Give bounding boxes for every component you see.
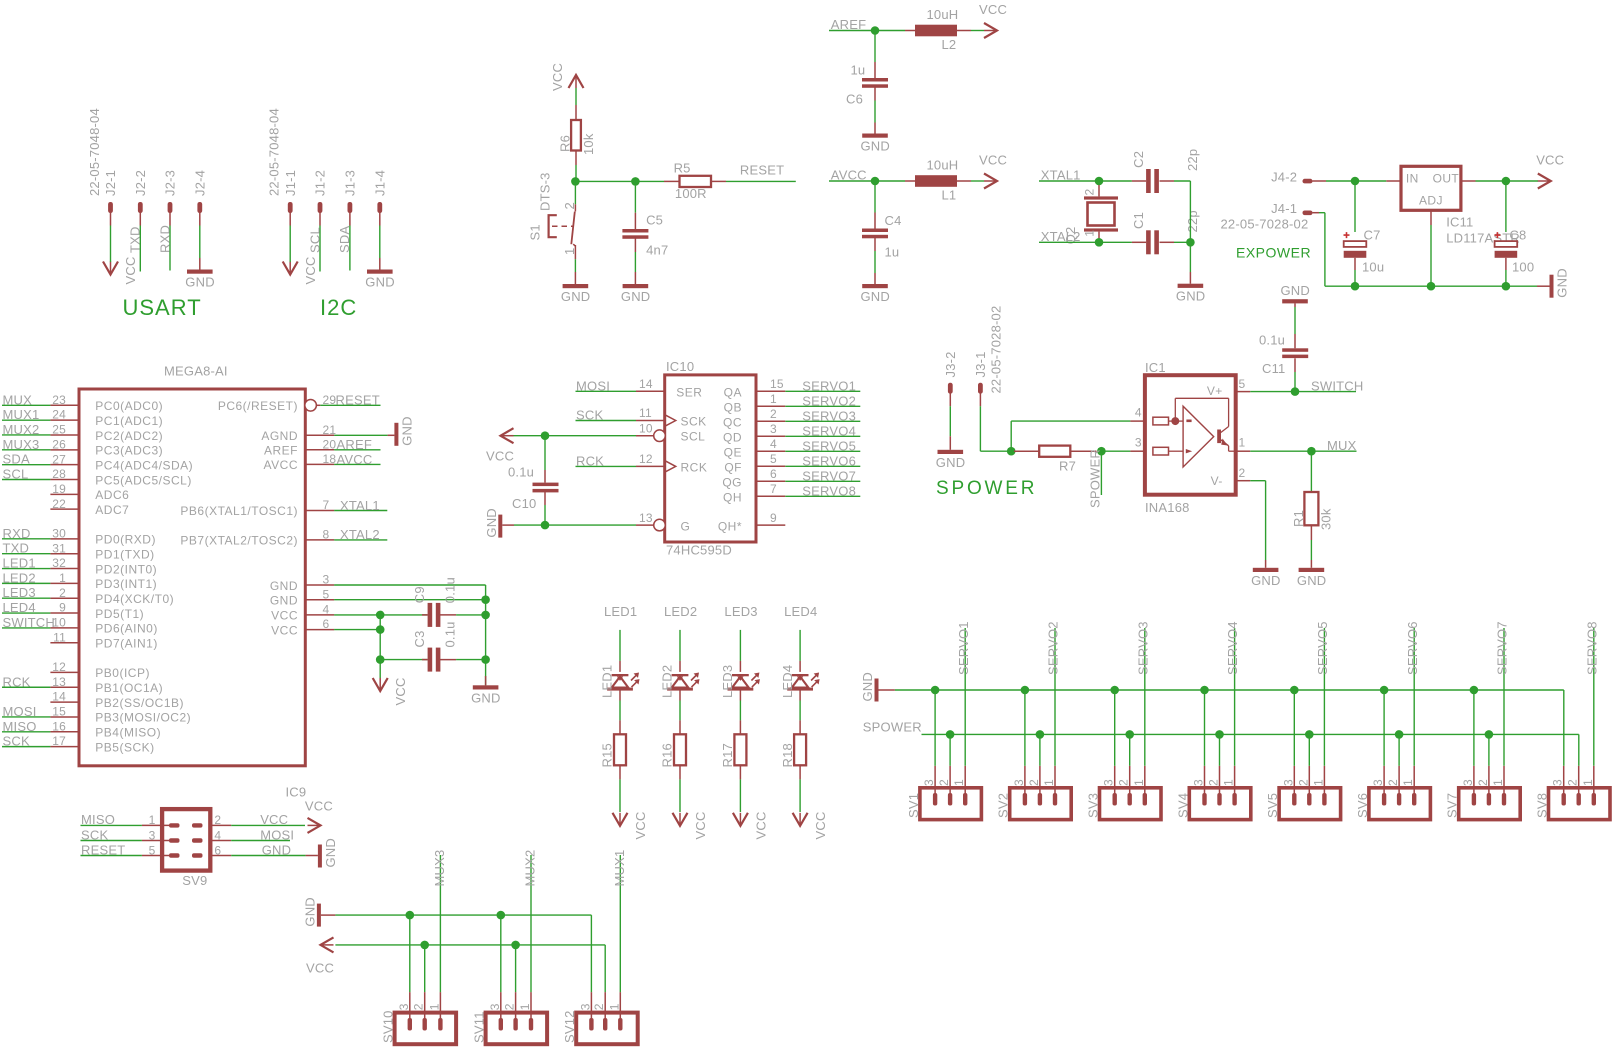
svg-text:GND: GND bbox=[561, 289, 591, 304]
svg-text:1: 1 bbox=[149, 813, 156, 827]
svg-text:MISO: MISO bbox=[3, 719, 37, 734]
svg-text:SERVO1: SERVO1 bbox=[956, 621, 971, 675]
svg-text:PB2(SS/OC1B): PB2(SS/OC1B) bbox=[95, 696, 184, 710]
svg-text:G: G bbox=[681, 520, 691, 534]
svg-text:GND: GND bbox=[1176, 289, 1206, 304]
svg-text:30k: 30k bbox=[1319, 508, 1334, 530]
svg-text:PC1(ADC1): PC1(ADC1) bbox=[95, 414, 163, 428]
svg-text:GND: GND bbox=[936, 455, 966, 470]
svg-text:GND: GND bbox=[621, 289, 651, 304]
svg-text:LED1: LED1 bbox=[604, 604, 637, 619]
svg-text:OUT: OUT bbox=[1433, 171, 1460, 185]
svg-text:GND: GND bbox=[302, 897, 317, 927]
svg-text:3: 3 bbox=[488, 1003, 502, 1010]
svg-text:2: 2 bbox=[1476, 779, 1490, 786]
svg-text:3: 3 bbox=[1192, 779, 1206, 786]
svg-text:LED2: LED2 bbox=[3, 570, 36, 585]
svg-text:V-: V- bbox=[1211, 474, 1223, 488]
svg-text:23: 23 bbox=[52, 393, 66, 407]
svg-text:VCC: VCC bbox=[486, 449, 514, 464]
svg-text:IC9: IC9 bbox=[286, 785, 307, 800]
svg-text:GND: GND bbox=[860, 672, 875, 702]
svg-text:R18: R18 bbox=[780, 743, 795, 767]
svg-text:L2: L2 bbox=[942, 37, 957, 52]
svg-text:1: 1 bbox=[427, 1003, 441, 1010]
svg-text:XTAL1: XTAL1 bbox=[340, 498, 380, 513]
svg-text:SERVO2: SERVO2 bbox=[1046, 621, 1061, 675]
svg-text:1: 1 bbox=[1311, 779, 1325, 786]
svg-text:25: 25 bbox=[52, 423, 66, 437]
svg-text:J1-4: J1-4 bbox=[373, 170, 388, 196]
svg-text:VCC: VCC bbox=[550, 63, 565, 91]
svg-text:MUX3: MUX3 bbox=[432, 850, 447, 887]
svg-text:15: 15 bbox=[52, 705, 66, 719]
svg-text:SCK: SCK bbox=[3, 734, 30, 749]
svg-text:1: 1 bbox=[59, 571, 66, 585]
svg-text:C3: C3 bbox=[412, 630, 427, 647]
svg-text:C10: C10 bbox=[512, 496, 536, 511]
svg-text:AREF: AREF bbox=[337, 437, 372, 452]
svg-text:R7: R7 bbox=[1059, 459, 1076, 474]
svg-text:SWITCH: SWITCH bbox=[3, 615, 55, 630]
svg-text:GND: GND bbox=[365, 275, 395, 290]
svg-text:2: 2 bbox=[1083, 189, 1097, 196]
svg-text:C5: C5 bbox=[646, 213, 663, 228]
svg-text:J1-2: J1-2 bbox=[313, 170, 328, 196]
svg-text:J1-3: J1-3 bbox=[343, 170, 358, 196]
svg-text:10uH: 10uH bbox=[927, 158, 959, 173]
svg-text:VCC: VCC bbox=[271, 609, 298, 623]
svg-text:SV12: SV12 bbox=[562, 1010, 577, 1043]
svg-text:4: 4 bbox=[770, 437, 777, 451]
svg-text:LED2: LED2 bbox=[660, 665, 675, 698]
svg-text:0.1u: 0.1u bbox=[443, 577, 458, 603]
svg-text:3: 3 bbox=[922, 779, 936, 786]
svg-text:3: 3 bbox=[1551, 779, 1565, 786]
svg-text:3: 3 bbox=[323, 573, 330, 587]
svg-text:SPOWER: SPOWER bbox=[863, 720, 922, 735]
svg-text:11: 11 bbox=[53, 630, 66, 644]
svg-text:AREF: AREF bbox=[831, 17, 866, 32]
svg-text:1: 1 bbox=[518, 1003, 532, 1010]
svg-text:12: 12 bbox=[52, 660, 66, 674]
svg-text:PD5(T1): PD5(T1) bbox=[95, 607, 144, 621]
svg-text:2: 2 bbox=[412, 1003, 426, 1010]
svg-text:10: 10 bbox=[639, 421, 653, 435]
svg-text:C9: C9 bbox=[412, 586, 427, 603]
svg-text:PC3(ADC3): PC3(ADC3) bbox=[95, 444, 163, 458]
svg-text:VCC: VCC bbox=[306, 961, 334, 976]
svg-text:3: 3 bbox=[397, 1003, 411, 1010]
svg-text:PC2(ADC2): PC2(ADC2) bbox=[95, 429, 163, 443]
svg-text:C2: C2 bbox=[1131, 151, 1146, 168]
svg-text:2: 2 bbox=[1027, 779, 1041, 786]
svg-text:SWITCH: SWITCH bbox=[1311, 379, 1363, 394]
svg-text:QD: QD bbox=[723, 430, 742, 444]
svg-text:PD2(INT0): PD2(INT0) bbox=[95, 562, 157, 576]
svg-text:7: 7 bbox=[323, 498, 330, 512]
svg-text:28: 28 bbox=[52, 467, 66, 481]
svg-text:MUX1: MUX1 bbox=[612, 850, 627, 887]
svg-text:3: 3 bbox=[578, 1003, 592, 1010]
svg-text:2: 2 bbox=[503, 1003, 517, 1010]
svg-text:MUX1: MUX1 bbox=[3, 407, 40, 422]
svg-text:LED2: LED2 bbox=[664, 604, 697, 619]
svg-text:4: 4 bbox=[323, 603, 330, 617]
svg-text:2: 2 bbox=[1239, 466, 1246, 480]
svg-text:SPOWER: SPOWER bbox=[1088, 449, 1103, 508]
svg-text:1: 1 bbox=[607, 1003, 621, 1010]
svg-text:QB: QB bbox=[724, 400, 742, 414]
svg-text:R16: R16 bbox=[660, 743, 675, 767]
svg-text:1: 1 bbox=[1132, 779, 1146, 786]
svg-text:SERVO6: SERVO6 bbox=[802, 453, 856, 468]
svg-text:J1-1: J1-1 bbox=[283, 170, 298, 196]
svg-text:MOSI: MOSI bbox=[3, 704, 37, 719]
svg-text:MUX: MUX bbox=[3, 392, 33, 407]
svg-text:1: 1 bbox=[952, 779, 966, 786]
svg-text:1: 1 bbox=[1222, 779, 1236, 786]
svg-text:22: 22 bbox=[52, 497, 66, 511]
svg-text:C8: C8 bbox=[1509, 228, 1526, 243]
svg-text:2: 2 bbox=[59, 586, 66, 600]
svg-text:22-05-7028-02: 22-05-7028-02 bbox=[989, 306, 1004, 394]
svg-text:ADJ: ADJ bbox=[1419, 193, 1443, 207]
svg-text:AREF: AREF bbox=[264, 444, 298, 458]
svg-text:1: 1 bbox=[1239, 436, 1246, 450]
svg-text:22-05-7048-04: 22-05-7048-04 bbox=[267, 108, 282, 196]
svg-text:0.1u: 0.1u bbox=[443, 621, 458, 647]
svg-text:J3-1: J3-1 bbox=[973, 351, 988, 377]
svg-text:XTAL2: XTAL2 bbox=[340, 527, 380, 542]
svg-text:VCC: VCC bbox=[813, 811, 828, 839]
svg-text:14: 14 bbox=[52, 690, 66, 704]
svg-text:SERVO3: SERVO3 bbox=[1135, 621, 1150, 675]
svg-text:SV6: SV6 bbox=[1355, 793, 1370, 818]
svg-text:MOSI: MOSI bbox=[576, 378, 610, 393]
svg-text:GND: GND bbox=[861, 139, 891, 154]
svg-text:PB1(OC1A): PB1(OC1A) bbox=[95, 681, 163, 695]
svg-text:2: 2 bbox=[1296, 779, 1310, 786]
svg-text:RXD: RXD bbox=[3, 526, 31, 541]
svg-text:PC0(ADC0): PC0(ADC0) bbox=[95, 399, 163, 413]
svg-text:MISO: MISO bbox=[81, 812, 115, 827]
svg-text:VCC: VCC bbox=[979, 153, 1007, 168]
svg-text:29: 29 bbox=[323, 393, 337, 407]
svg-text:SV1: SV1 bbox=[906, 793, 921, 818]
svg-text:7: 7 bbox=[770, 482, 777, 496]
svg-text:0.1u: 0.1u bbox=[1259, 333, 1285, 348]
svg-text:MEGA8-AI: MEGA8-AI bbox=[164, 364, 228, 379]
svg-text:3: 3 bbox=[1461, 779, 1475, 786]
svg-text:24: 24 bbox=[52, 408, 66, 422]
svg-text:SCK: SCK bbox=[576, 408, 603, 423]
svg-text:AVCC: AVCC bbox=[337, 452, 373, 467]
svg-text:PD3(INT1): PD3(INT1) bbox=[95, 577, 157, 591]
svg-text:EXPOWER: EXPOWER bbox=[1236, 245, 1311, 261]
svg-text:1u: 1u bbox=[851, 63, 866, 78]
svg-text:GND: GND bbox=[471, 690, 501, 705]
svg-text:VCC: VCC bbox=[305, 799, 333, 814]
svg-text:GND: GND bbox=[323, 838, 338, 868]
svg-text:SERVO6: SERVO6 bbox=[1405, 621, 1420, 675]
svg-text:2: 2 bbox=[214, 813, 221, 827]
svg-text:2: 2 bbox=[937, 779, 951, 786]
svg-text:SERVO8: SERVO8 bbox=[1584, 621, 1599, 675]
svg-text:SV11: SV11 bbox=[472, 1011, 487, 1043]
svg-text:2: 2 bbox=[770, 407, 777, 421]
svg-text:3: 3 bbox=[1102, 779, 1116, 786]
svg-text:VCC: VCC bbox=[123, 256, 138, 284]
svg-text:1: 1 bbox=[1042, 779, 1056, 786]
svg-text:27: 27 bbox=[52, 452, 66, 466]
svg-text:GND: GND bbox=[1281, 283, 1311, 298]
svg-text:19: 19 bbox=[52, 482, 66, 496]
svg-text:32: 32 bbox=[52, 556, 66, 570]
svg-text:1: 1 bbox=[1401, 779, 1415, 786]
svg-text:15: 15 bbox=[770, 377, 784, 391]
svg-text:XTAL2: XTAL2 bbox=[1041, 229, 1081, 244]
svg-text:SV8: SV8 bbox=[1535, 793, 1550, 818]
svg-text:1: 1 bbox=[562, 248, 577, 255]
svg-text:1: 1 bbox=[1083, 230, 1097, 237]
svg-text:SERVO5: SERVO5 bbox=[802, 438, 856, 453]
svg-text:2: 2 bbox=[1566, 779, 1580, 786]
svg-text:PB4(MISO): PB4(MISO) bbox=[95, 726, 161, 740]
svg-text:SERVO4: SERVO4 bbox=[802, 423, 856, 438]
svg-text:SERVO8: SERVO8 bbox=[802, 483, 856, 498]
svg-text:SERVO1: SERVO1 bbox=[802, 378, 856, 393]
svg-text:6: 6 bbox=[770, 467, 777, 481]
svg-text:J2-2: J2-2 bbox=[133, 170, 148, 196]
svg-text:22p: 22p bbox=[1185, 210, 1200, 232]
svg-text:J2-1: J2-1 bbox=[103, 170, 118, 196]
svg-text:PD1(TXD): PD1(TXD) bbox=[95, 548, 154, 562]
svg-text:LED4: LED4 bbox=[3, 600, 36, 615]
svg-text:VCC: VCC bbox=[693, 811, 708, 839]
svg-text:GND: GND bbox=[1251, 573, 1281, 588]
svg-text:9: 9 bbox=[770, 511, 777, 525]
svg-text:RCK: RCK bbox=[3, 674, 31, 689]
svg-text:PB3(MOSI/OC2): PB3(MOSI/OC2) bbox=[95, 711, 191, 725]
svg-text:J4-2: J4-2 bbox=[1271, 169, 1297, 184]
svg-text:R15: R15 bbox=[600, 743, 615, 767]
svg-text:USART: USART bbox=[123, 295, 202, 320]
svg-text:LED4: LED4 bbox=[780, 665, 795, 698]
svg-text:LED3: LED3 bbox=[724, 604, 757, 619]
svg-text:SERVO2: SERVO2 bbox=[802, 393, 856, 408]
svg-text:MUX: MUX bbox=[1327, 438, 1357, 453]
svg-text:PB7(XTAL2/TOSC2): PB7(XTAL2/TOSC2) bbox=[180, 534, 298, 548]
svg-text:PB0(ICP): PB0(ICP) bbox=[95, 666, 150, 680]
svg-text:SV3: SV3 bbox=[1086, 793, 1101, 818]
svg-text:31: 31 bbox=[52, 541, 66, 555]
svg-text:V+: V+ bbox=[1207, 384, 1223, 398]
svg-text:3: 3 bbox=[770, 422, 777, 436]
svg-text:2: 2 bbox=[1386, 779, 1400, 786]
svg-text:AGND: AGND bbox=[261, 429, 298, 443]
svg-text:2: 2 bbox=[592, 1003, 606, 1010]
svg-text:10uH: 10uH bbox=[927, 7, 959, 22]
svg-text:GND: GND bbox=[262, 842, 292, 857]
svg-text:VCC: VCC bbox=[303, 256, 318, 284]
svg-text:MUX2: MUX2 bbox=[523, 850, 538, 887]
svg-text:GND: GND bbox=[1555, 268, 1570, 298]
svg-text:TXD: TXD bbox=[128, 226, 143, 253]
svg-text:13: 13 bbox=[639, 511, 653, 525]
svg-text:10u: 10u bbox=[1362, 260, 1384, 275]
svg-text:14: 14 bbox=[639, 377, 653, 391]
svg-text:22-05-7048-04: 22-05-7048-04 bbox=[87, 108, 102, 196]
svg-text:1: 1 bbox=[1491, 779, 1505, 786]
svg-text:2: 2 bbox=[562, 202, 577, 209]
svg-text:SDA: SDA bbox=[337, 226, 352, 253]
svg-text:GND: GND bbox=[270, 579, 298, 593]
svg-text:RXD: RXD bbox=[157, 225, 172, 253]
svg-text:SERVO4: SERVO4 bbox=[1225, 621, 1240, 675]
svg-text:SV2: SV2 bbox=[996, 793, 1011, 818]
svg-text:SER: SER bbox=[676, 385, 702, 399]
svg-text:5: 5 bbox=[323, 587, 330, 601]
svg-text:10k: 10k bbox=[581, 133, 596, 155]
svg-text:SV4: SV4 bbox=[1175, 793, 1190, 818]
svg-text:QC: QC bbox=[723, 415, 742, 429]
svg-text:QF: QF bbox=[724, 460, 742, 474]
svg-text:LED3: LED3 bbox=[720, 665, 735, 698]
svg-text:SCK: SCK bbox=[81, 827, 108, 842]
svg-text:QE: QE bbox=[724, 445, 742, 459]
svg-text:3: 3 bbox=[1012, 779, 1026, 786]
svg-text:S1: S1 bbox=[528, 224, 543, 240]
svg-text:R17: R17 bbox=[720, 743, 735, 767]
svg-text:1: 1 bbox=[1581, 779, 1595, 786]
svg-text:MUX3: MUX3 bbox=[3, 437, 40, 452]
svg-text:RESET: RESET bbox=[740, 163, 784, 178]
svg-text:J2-4: J2-4 bbox=[193, 170, 208, 196]
svg-text:16: 16 bbox=[52, 719, 66, 733]
svg-text:SV9: SV9 bbox=[182, 873, 207, 888]
svg-text:100R: 100R bbox=[675, 186, 707, 201]
svg-text:C11: C11 bbox=[1262, 361, 1285, 376]
svg-text:SPOWER: SPOWER bbox=[936, 478, 1037, 499]
svg-text:4: 4 bbox=[1135, 406, 1142, 420]
svg-text:3: 3 bbox=[1371, 779, 1385, 786]
svg-text:QH: QH bbox=[723, 490, 742, 504]
svg-text:LED3: LED3 bbox=[3, 585, 36, 600]
svg-text:ADC6: ADC6 bbox=[95, 488, 129, 502]
svg-text:9: 9 bbox=[59, 601, 66, 615]
svg-text:XTAL1: XTAL1 bbox=[1041, 168, 1081, 183]
svg-text:VCC: VCC bbox=[260, 812, 288, 827]
svg-text:PC4(ADC4/SDA): PC4(ADC4/SDA) bbox=[95, 458, 193, 472]
svg-text:GND: GND bbox=[861, 289, 891, 304]
svg-text:26: 26 bbox=[52, 437, 66, 451]
svg-text:C4: C4 bbox=[885, 213, 902, 228]
svg-text:PC5(ADC5/SCL): PC5(ADC5/SCL) bbox=[95, 473, 192, 487]
svg-text:3: 3 bbox=[1135, 436, 1142, 450]
svg-text:R6: R6 bbox=[558, 135, 573, 152]
svg-text:SCL: SCL bbox=[307, 227, 322, 253]
svg-text:LED1: LED1 bbox=[3, 556, 36, 571]
svg-text:RCK: RCK bbox=[681, 460, 708, 474]
svg-text:J4-1: J4-1 bbox=[1271, 201, 1297, 216]
svg-text:5: 5 bbox=[770, 452, 777, 466]
svg-text:SERVO7: SERVO7 bbox=[802, 468, 856, 483]
svg-text:0.1u: 0.1u bbox=[508, 465, 534, 480]
svg-text:SCK: SCK bbox=[681, 415, 707, 429]
svg-text:SCL: SCL bbox=[681, 430, 706, 444]
svg-text:J3-2: J3-2 bbox=[943, 351, 958, 377]
svg-text:C1: C1 bbox=[1131, 212, 1146, 229]
svg-text:INA168: INA168 bbox=[1145, 500, 1190, 515]
svg-text:MOSI: MOSI bbox=[260, 827, 294, 842]
svg-text:I2C: I2C bbox=[320, 295, 357, 320]
svg-text:12: 12 bbox=[639, 452, 653, 466]
svg-text:RESET: RESET bbox=[336, 393, 380, 408]
svg-text:1u: 1u bbox=[885, 245, 900, 260]
svg-text:SCL: SCL bbox=[3, 467, 29, 482]
svg-text:QH*: QH* bbox=[718, 520, 742, 534]
svg-text:L1: L1 bbox=[942, 187, 957, 202]
svg-text:5: 5 bbox=[149, 843, 156, 857]
svg-text:LED1: LED1 bbox=[600, 665, 615, 698]
svg-text:RCK: RCK bbox=[576, 453, 604, 468]
svg-text:SV5: SV5 bbox=[1265, 793, 1280, 818]
svg-text:6: 6 bbox=[214, 843, 221, 857]
svg-text:6: 6 bbox=[323, 617, 330, 631]
svg-text:DTS-3: DTS-3 bbox=[537, 172, 552, 211]
svg-text:J2-3: J2-3 bbox=[163, 170, 178, 196]
svg-text:PD0(RXD): PD0(RXD) bbox=[95, 533, 156, 547]
svg-text:SDA: SDA bbox=[3, 452, 30, 467]
svg-text:QA: QA bbox=[724, 385, 742, 399]
svg-text:SERVO5: SERVO5 bbox=[1315, 621, 1330, 675]
svg-text:PD4(XCK/T0): PD4(XCK/T0) bbox=[95, 592, 174, 606]
svg-text:4n7: 4n7 bbox=[646, 243, 668, 258]
svg-text:74HC595D: 74HC595D bbox=[666, 543, 732, 558]
svg-text:VCC: VCC bbox=[979, 2, 1007, 17]
svg-text:VCC: VCC bbox=[1536, 153, 1564, 168]
svg-text:AVCC: AVCC bbox=[831, 168, 867, 183]
svg-text:GND: GND bbox=[1297, 573, 1327, 588]
svg-text:MUX2: MUX2 bbox=[3, 422, 40, 437]
svg-text:17: 17 bbox=[52, 734, 66, 748]
svg-text:GND: GND bbox=[484, 508, 499, 538]
svg-text:IC1: IC1 bbox=[1145, 360, 1166, 375]
svg-text:2: 2 bbox=[1117, 779, 1131, 786]
svg-text:IC10: IC10 bbox=[666, 359, 694, 374]
svg-text:PD7(AIN1): PD7(AIN1) bbox=[95, 637, 158, 651]
svg-text:VCC: VCC bbox=[393, 677, 408, 705]
svg-text:RESET: RESET bbox=[81, 842, 125, 857]
svg-text:8: 8 bbox=[323, 528, 330, 542]
svg-text:VCC: VCC bbox=[271, 623, 298, 637]
svg-text:100: 100 bbox=[1512, 260, 1534, 275]
svg-text:R1: R1 bbox=[1291, 510, 1306, 527]
svg-text:R5: R5 bbox=[674, 161, 691, 176]
svg-text:13: 13 bbox=[52, 675, 66, 689]
svg-text:VCC: VCC bbox=[753, 811, 768, 839]
svg-text:22-05-7028-02: 22-05-7028-02 bbox=[1221, 217, 1309, 232]
svg-text:2: 2 bbox=[1207, 779, 1221, 786]
svg-text:C7: C7 bbox=[1364, 228, 1381, 243]
svg-text:VCC: VCC bbox=[633, 811, 648, 839]
svg-text:GND: GND bbox=[399, 416, 414, 446]
svg-text:PC6(/RESET): PC6(/RESET) bbox=[218, 399, 298, 413]
svg-text:GND: GND bbox=[185, 275, 215, 290]
svg-text:SV7: SV7 bbox=[1445, 793, 1460, 818]
svg-text:AVCC: AVCC bbox=[264, 458, 298, 472]
